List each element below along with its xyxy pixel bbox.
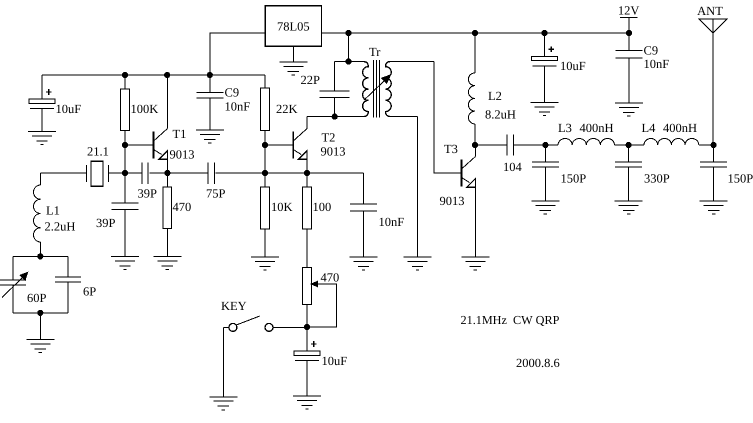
svg-text:10nF: 10nF: [225, 100, 251, 114]
svg-text:75P: 75P: [206, 187, 226, 201]
svg-text:10uF: 10uF: [560, 59, 586, 73]
svg-text:6P: 6P: [83, 285, 96, 299]
svg-text:150P: 150P: [728, 172, 753, 186]
svg-text:150P: 150P: [561, 172, 587, 186]
svg-text:Tr: Tr: [369, 45, 381, 59]
svg-text:10uF: 10uF: [56, 102, 82, 116]
svg-text:2000.8.6: 2000.8.6: [516, 356, 560, 370]
svg-text:C9: C9: [644, 44, 659, 58]
svg-text:10nF: 10nF: [644, 57, 670, 71]
svg-text:10nF: 10nF: [379, 215, 405, 229]
svg-text:9013: 9013: [440, 194, 465, 208]
svg-text:470: 470: [321, 271, 340, 285]
svg-text:L4: L4: [642, 121, 657, 135]
svg-text:10K: 10K: [271, 200, 293, 214]
svg-text:C9: C9: [225, 86, 240, 100]
svg-text:330P: 330P: [644, 172, 670, 186]
svg-text:T3: T3: [444, 142, 458, 156]
svg-text:T1: T1: [173, 127, 187, 141]
svg-text:78L05: 78L05: [277, 20, 310, 34]
svg-text:2.2uH: 2.2uH: [45, 220, 76, 234]
svg-text:L1: L1: [46, 204, 60, 218]
svg-text:8.2uH: 8.2uH: [485, 108, 516, 122]
svg-text:400nH: 400nH: [663, 121, 697, 135]
svg-text:100: 100: [313, 200, 332, 214]
svg-text:39P: 39P: [96, 216, 116, 230]
svg-text:22K: 22K: [276, 102, 298, 116]
svg-text:60P: 60P: [27, 291, 47, 305]
svg-text:L2: L2: [488, 89, 502, 103]
svg-text:22P: 22P: [301, 73, 321, 87]
svg-text:104: 104: [503, 160, 523, 174]
svg-text:10uF: 10uF: [322, 354, 348, 368]
svg-text:L3: L3: [558, 121, 572, 135]
svg-text:21.1MHz CW QRP: 21.1MHz CW QRP: [461, 313, 560, 327]
svg-text:21.1: 21.1: [87, 145, 109, 159]
svg-text:9013: 9013: [170, 148, 195, 162]
svg-text:KEY: KEY: [221, 299, 247, 313]
svg-text:39P: 39P: [138, 187, 158, 201]
svg-text:12V: 12V: [618, 3, 640, 17]
svg-text:ANT: ANT: [697, 4, 723, 18]
svg-text:470: 470: [173, 200, 192, 214]
svg-text:T2: T2: [322, 131, 336, 145]
svg-text:400nH: 400nH: [580, 121, 614, 135]
svg-text:100K: 100K: [131, 102, 159, 116]
svg-text:9013: 9013: [321, 145, 346, 159]
